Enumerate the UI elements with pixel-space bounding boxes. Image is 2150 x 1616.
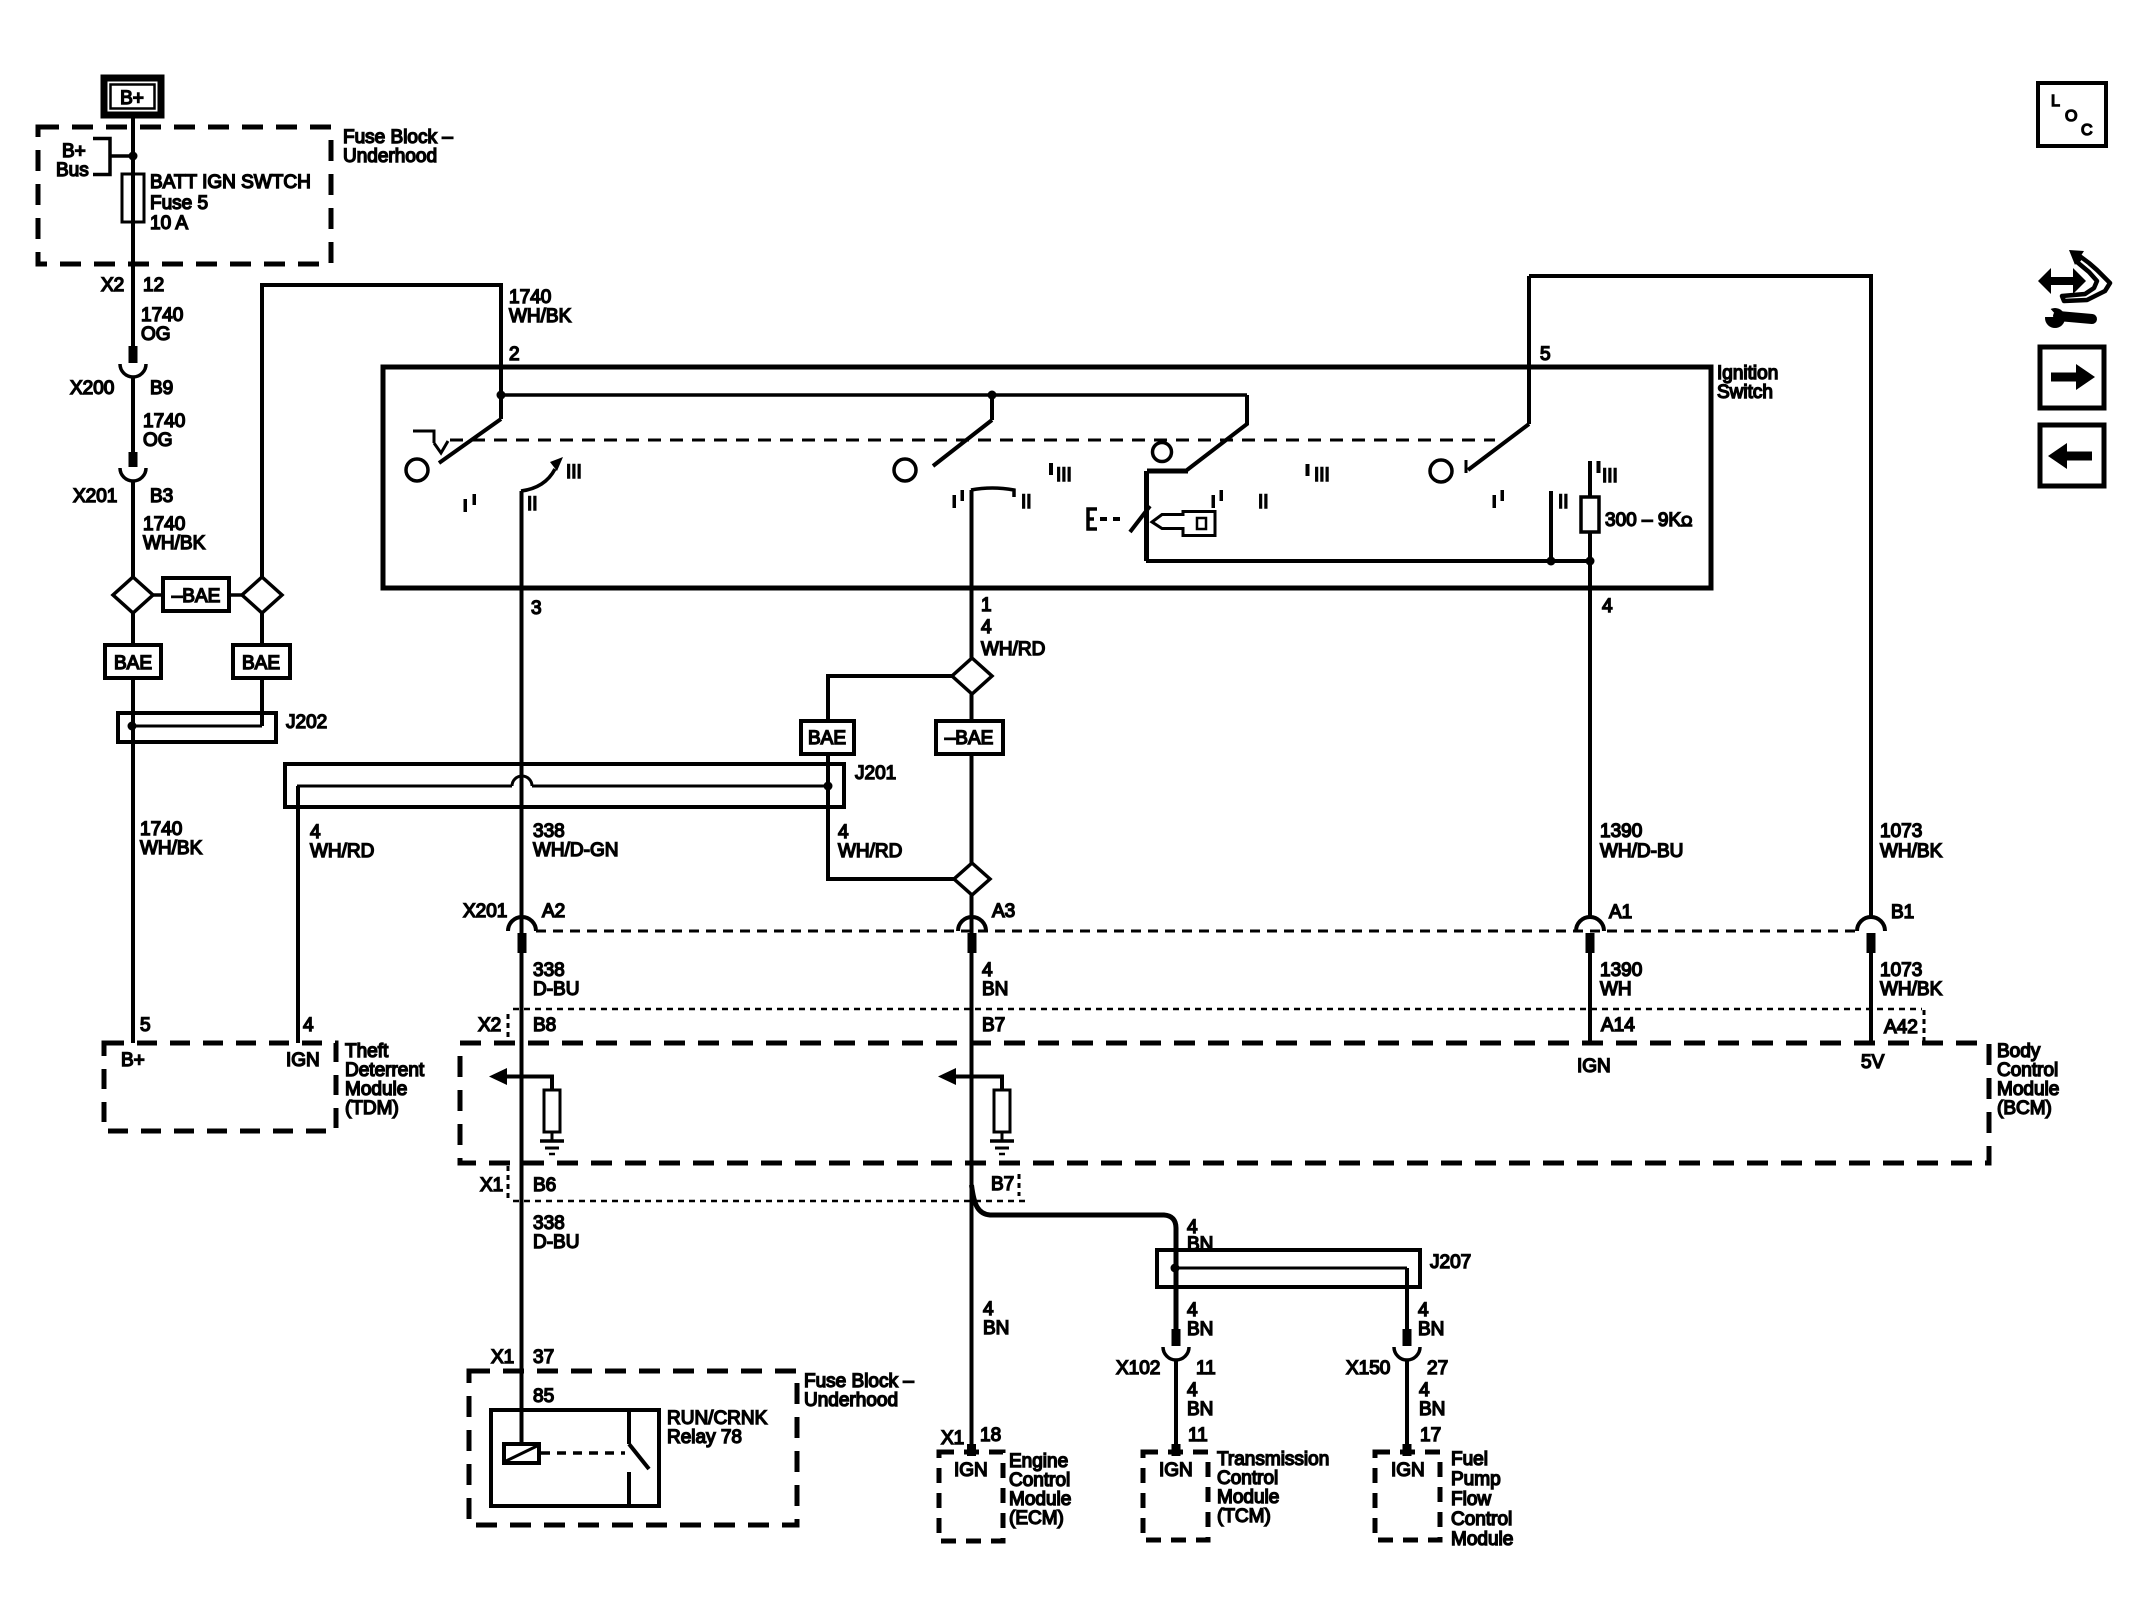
- svg-text:Control: Control: [1451, 1509, 1512, 1530]
- svg-text:338: 338: [533, 1213, 565, 1234]
- svg-text:Engine: Engine: [1009, 1451, 1068, 1472]
- svg-text:(TCM): (TCM): [1217, 1506, 1271, 1527]
- svg-text:Fuse Block –: Fuse Block –: [343, 127, 453, 148]
- svg-text:WH: WH: [1600, 979, 1632, 1000]
- svg-text:11: 11: [1188, 1425, 1208, 1446]
- svg-text:Flow: Flow: [1451, 1489, 1491, 1510]
- svg-text:Ignition: Ignition: [1717, 363, 1778, 384]
- svg-text:1390: 1390: [1600, 821, 1642, 842]
- svg-text:X2: X2: [101, 275, 124, 296]
- svg-text:(TDM): (TDM): [345, 1098, 399, 1119]
- svg-text:4: 4: [1187, 1300, 1198, 1321]
- svg-text:1073: 1073: [1880, 960, 1922, 981]
- svg-text:A1: A1: [1609, 902, 1632, 923]
- svg-text:1740: 1740: [141, 305, 183, 326]
- svg-text:1390: 1390: [1600, 960, 1642, 981]
- svg-text:1740: 1740: [140, 819, 182, 840]
- svg-text:Deterrent: Deterrent: [345, 1060, 425, 1081]
- svg-text:J201: J201: [855, 763, 896, 784]
- svg-text:BN: BN: [982, 979, 1008, 1000]
- svg-text:X102: X102: [1116, 1358, 1160, 1379]
- svg-text:IGN: IGN: [1577, 1056, 1611, 1077]
- svg-text:D-BU: D-BU: [533, 979, 579, 1000]
- svg-text:A14: A14: [1601, 1015, 1635, 1036]
- svg-text:BN: BN: [983, 1318, 1009, 1339]
- svg-text:WH/BK: WH/BK: [140, 838, 203, 859]
- svg-text:B+: B+: [120, 88, 144, 109]
- svg-text:OG: OG: [141, 324, 171, 345]
- svg-text:300 – 9KΩ: 300 – 9KΩ: [1605, 510, 1692, 531]
- svg-text:WH/D-BU: WH/D-BU: [1600, 841, 1683, 862]
- svg-text:BAE: BAE: [808, 728, 846, 749]
- svg-text:BN: BN: [1418, 1319, 1444, 1340]
- svg-text:B+: B+: [62, 141, 86, 162]
- svg-text:1740: 1740: [143, 514, 185, 535]
- svg-text:BAE: BAE: [242, 653, 280, 674]
- svg-text:X1: X1: [480, 1175, 503, 1196]
- svg-text:X2: X2: [478, 1015, 501, 1036]
- svg-text:III: III: [1314, 465, 1330, 486]
- svg-text:B+: B+: [121, 1050, 145, 1071]
- svg-text:C: C: [2081, 122, 2093, 139]
- svg-text:WH/BK: WH/BK: [509, 306, 572, 327]
- svg-text:II: II: [1558, 492, 1569, 513]
- svg-text:18: 18: [980, 1425, 1001, 1446]
- svg-text:4: 4: [310, 822, 321, 843]
- svg-text:X150: X150: [1346, 1358, 1390, 1379]
- svg-text:5: 5: [1540, 344, 1551, 365]
- svg-text:11: 11: [1196, 1358, 1216, 1379]
- svg-text:Module: Module: [345, 1079, 407, 1100]
- svg-text:Control: Control: [1217, 1468, 1278, 1489]
- svg-text:4: 4: [1419, 1380, 1430, 1401]
- svg-text:B7: B7: [982, 1015, 1005, 1036]
- svg-text:Fuel: Fuel: [1451, 1449, 1488, 1470]
- svg-text:BATT IGN SWTCH: BATT IGN SWTCH: [150, 172, 311, 193]
- svg-text:WH/RD: WH/RD: [981, 639, 1045, 660]
- svg-text:Bus: Bus: [56, 160, 89, 181]
- svg-text:Body: Body: [1997, 1041, 2041, 1062]
- svg-text:WH/BK: WH/BK: [143, 533, 206, 554]
- svg-text:X200: X200: [70, 378, 114, 399]
- svg-text:J202: J202: [286, 712, 327, 733]
- svg-text:WH/D-GN: WH/D-GN: [533, 840, 618, 861]
- svg-text:IGN: IGN: [954, 1460, 988, 1481]
- svg-text:BAE: BAE: [114, 653, 152, 674]
- svg-text:X1: X1: [491, 1347, 514, 1368]
- svg-text:J207: J207: [1430, 1252, 1471, 1273]
- svg-text:37: 37: [533, 1347, 554, 1368]
- svg-text:1073: 1073: [1880, 821, 1922, 842]
- svg-text:Switch: Switch: [1717, 382, 1773, 403]
- svg-text:Transmission: Transmission: [1217, 1449, 1329, 1470]
- svg-text:(ECM): (ECM): [1009, 1508, 1064, 1529]
- svg-text:A3: A3: [992, 901, 1015, 922]
- svg-text:B6: B6: [533, 1175, 556, 1196]
- svg-text:5V: 5V: [1861, 1052, 1885, 1073]
- svg-text:Control: Control: [1997, 1060, 2058, 1081]
- svg-text:4: 4: [982, 960, 993, 981]
- svg-text:WH/RD: WH/RD: [838, 841, 902, 862]
- svg-text:B9: B9: [150, 378, 173, 399]
- svg-text:4: 4: [1602, 596, 1613, 617]
- svg-text:A42: A42: [1884, 1017, 1918, 1038]
- svg-text:Module: Module: [1451, 1529, 1513, 1550]
- svg-text:Fuse Block –: Fuse Block –: [804, 1371, 914, 1392]
- svg-text:1740: 1740: [509, 287, 551, 308]
- svg-text:Underhood: Underhood: [343, 146, 437, 167]
- svg-text:10 A: 10 A: [150, 213, 188, 234]
- svg-text:17: 17: [1420, 1425, 1441, 1446]
- svg-text:WH/BK: WH/BK: [1880, 841, 1943, 862]
- svg-text:Module: Module: [1217, 1487, 1279, 1508]
- svg-text:A2: A2: [542, 901, 565, 922]
- svg-text:BN: BN: [1419, 1399, 1445, 1420]
- svg-text:(BCM): (BCM): [1997, 1098, 2052, 1119]
- svg-text:12: 12: [143, 275, 164, 296]
- svg-text:4: 4: [1187, 1380, 1198, 1401]
- svg-text:Underhood: Underhood: [804, 1390, 898, 1411]
- svg-text:B7: B7: [991, 1174, 1014, 1195]
- svg-text:4: 4: [1418, 1300, 1429, 1321]
- svg-text:IGN: IGN: [1159, 1460, 1193, 1481]
- svg-text:II: II: [1021, 492, 1032, 513]
- svg-text:B1: B1: [1891, 902, 1914, 923]
- svg-text:II: II: [527, 494, 538, 515]
- svg-text:III: III: [1602, 466, 1618, 487]
- svg-text:Module: Module: [1997, 1079, 2059, 1100]
- svg-text:O: O: [2065, 108, 2077, 125]
- svg-text:X1: X1: [941, 1428, 964, 1449]
- svg-text:Module: Module: [1009, 1489, 1071, 1510]
- svg-text:3: 3: [531, 598, 542, 619]
- svg-text:L: L: [2051, 93, 2060, 110]
- svg-text:Theft: Theft: [345, 1041, 389, 1062]
- svg-text:27: 27: [1427, 1358, 1448, 1379]
- svg-text:D-BU: D-BU: [533, 1232, 579, 1253]
- svg-text:4: 4: [981, 617, 992, 638]
- svg-text:B3: B3: [150, 486, 173, 507]
- svg-text:5: 5: [140, 1015, 151, 1036]
- svg-text:Control: Control: [1009, 1470, 1070, 1491]
- svg-text:Pump: Pump: [1451, 1469, 1501, 1490]
- svg-text:X201: X201: [73, 486, 117, 507]
- svg-text:WH/RD: WH/RD: [310, 841, 374, 862]
- svg-text:WH/BK: WH/BK: [1880, 979, 1943, 1000]
- svg-text:338: 338: [533, 960, 565, 981]
- svg-text:2: 2: [509, 344, 520, 365]
- svg-text:1740: 1740: [143, 411, 185, 432]
- svg-text:RUN/CRNK: RUN/CRNK: [667, 1408, 768, 1429]
- svg-text:X201: X201: [463, 901, 507, 922]
- svg-text:4: 4: [838, 822, 849, 843]
- svg-text:III: III: [566, 462, 582, 483]
- svg-text:–BAE: –BAE: [945, 728, 994, 749]
- svg-text:IGN: IGN: [286, 1050, 320, 1071]
- svg-text:B8: B8: [533, 1015, 556, 1036]
- svg-text:BN: BN: [1187, 1399, 1213, 1420]
- svg-text:1: 1: [981, 595, 992, 616]
- svg-text:–BAE: –BAE: [172, 586, 221, 607]
- svg-text:85: 85: [533, 1386, 554, 1407]
- svg-text:BN: BN: [1187, 1319, 1213, 1340]
- svg-text:Fuse 5: Fuse 5: [150, 193, 208, 214]
- svg-text:III: III: [1056, 465, 1072, 486]
- svg-text:OG: OG: [143, 430, 173, 451]
- svg-text:4: 4: [303, 1015, 314, 1036]
- svg-text:II: II: [1258, 492, 1269, 513]
- svg-text:Relay 78: Relay 78: [667, 1427, 742, 1448]
- svg-text:338: 338: [533, 821, 565, 842]
- svg-text:4: 4: [983, 1299, 994, 1320]
- svg-text:IGN: IGN: [1391, 1460, 1425, 1481]
